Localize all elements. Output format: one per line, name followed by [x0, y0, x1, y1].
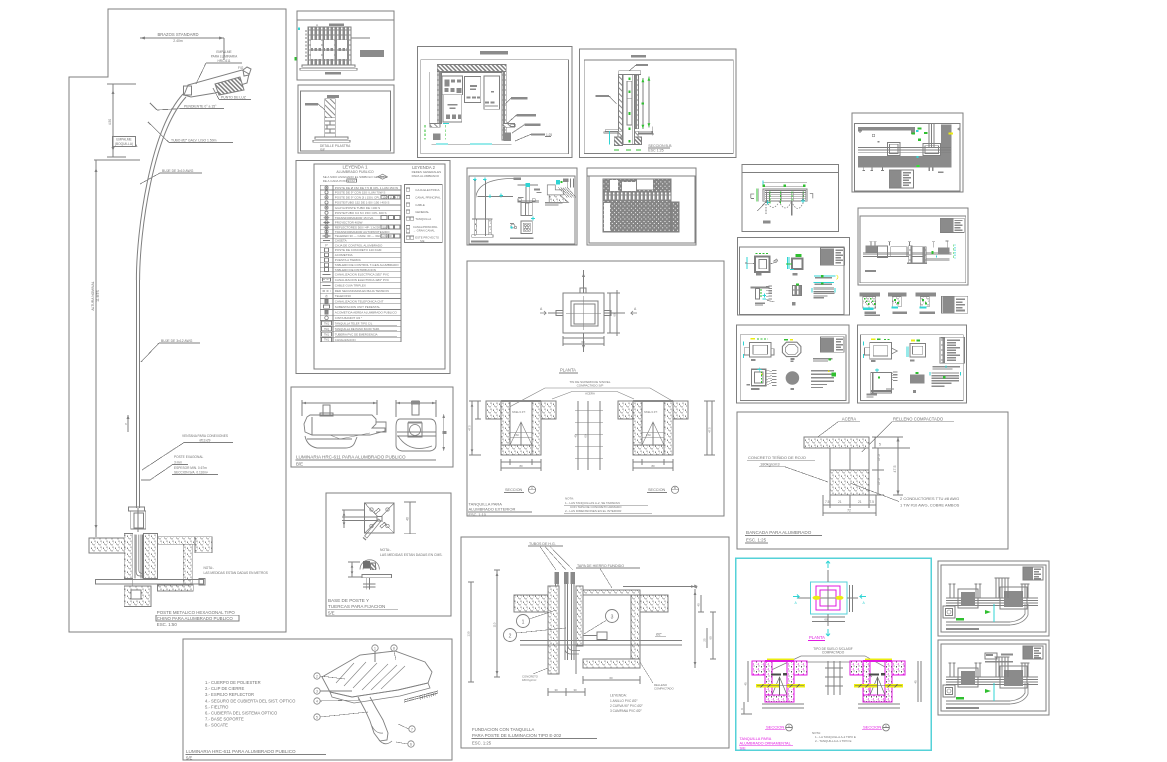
P19 title: [296, 455, 437, 467]
svg-text:45: 45: [914, 680, 918, 684]
svg-text:→ GRAN CANAL: → GRAN CANAL: [413, 229, 435, 233]
svg-text:LUMINARIA HRC-611 PARA ALUM: LUMINARIA HRC-611 PARA ALUMBRADO PUBLICO: [296, 455, 406, 460]
P14 detail sq1: [863, 338, 897, 362]
svg-text:LEYENDA:: LEYENDA:: [610, 694, 627, 698]
panel P15 border bancada: [737, 412, 1008, 549]
panel P13 border: [737, 325, 850, 403]
svg-text:GENERAL: GENERAL: [415, 210, 429, 214]
svg-text:COMPACTADO: COMPACTADO: [654, 687, 674, 691]
P1 luminaire head: [184, 67, 252, 97]
P16 yellow pads: [813, 596, 844, 600]
svg-text:2.40m: 2.40m: [173, 39, 183, 43]
svg-text:CABLE: CABLE: [415, 203, 425, 207]
P12 cluster C tee section: [915, 293, 936, 314]
svg-text:72: 72: [847, 509, 851, 513]
svg-text:2.- CLIP DE CIERRE: 2.- CLIP DE CIERRE: [205, 686, 244, 691]
P4 leader label 2: [506, 114, 536, 124]
svg-text:8.- SOCATE: 8.- SOCATE: [205, 723, 228, 728]
svg-text:RED SECUNDARIA EN BAJA TENSION: RED SECUNDARIA EN BAJA TENSION: [335, 289, 389, 293]
svg-text:ACOMETIDA AEREA ALUMBRADO PUBL: ACOMETIDA AEREA ALUMBRADO PUBLICO: [335, 311, 398, 315]
P22 roof leaders: [500, 380, 688, 412]
P11 right green cyan dashes: [954, 244, 955, 259]
P22 bottom dims under sections: [501, 459, 673, 471]
P23 right dims: [694, 589, 716, 668]
P1 conduit pipes in foundation: [136, 535, 144, 579]
svg-text:47.5: 47.5: [468, 425, 472, 431]
P4 leader label 1: [506, 97, 528, 104]
P4 leader label 3: [512, 124, 540, 134]
P16 cyan section arrows: [793, 561, 866, 636]
svg-text:60: 60: [581, 340, 585, 344]
svg-text:ESTE PROYECTO: ESTE PROYECTO: [415, 236, 440, 240]
svg-text:2.- TANQUILLA A-1 TIPO E: 2.- TANQUILLA A-1 TIPO E: [815, 739, 852, 743]
P16 title magenta: [739, 737, 793, 750]
P23 left wing block: [514, 595, 548, 612]
P20 bolt detail: [348, 560, 392, 590]
P3 caption: [320, 144, 351, 152]
svg-text:CANAL PRINCIPAL: CANAL PRINCIPAL: [415, 196, 441, 200]
panel P2 border: [297, 11, 394, 80]
svg-text:CASETA: CASETA: [335, 239, 347, 243]
svg-text:40: 40: [406, 517, 410, 521]
svg-text:COMPACTADO S/P: COMPACTADO S/P: [577, 383, 604, 387]
svg-text:2 CURVA 90° PVC Ø2″: 2 CURVA 90° PVC Ø2″: [610, 704, 644, 708]
P4 right column: [502, 71, 507, 140]
svg-text:CONCRETO TEÑIDO DE ROJO: CONCRETO TEÑIDO DE ROJO: [748, 455, 806, 460]
svg-text:5/E: 5/E: [186, 756, 192, 761]
P15 dim 47.5 overall: [893, 437, 903, 495]
P15 trench walls: [830, 448, 869, 470]
svg-text:NOTA:-: NOTA:-: [380, 548, 391, 552]
P1 chamber top slab and right wing: [158, 537, 213, 586]
svg-text:S/E: S/E: [740, 746, 747, 750]
svg-text:21: 21: [858, 500, 862, 504]
P1 label punto de luz: [213, 88, 251, 100]
P13 title block: [820, 337, 844, 353]
svg-text:7.- BASE SOPORTE: 7.- BASE SOPORTE: [205, 717, 244, 722]
P1 dimension 4.50 brazo height: [107, 84, 136, 157]
P23 center shaft walls: [548, 586, 583, 674]
P1 label ventana para conexiones: [142, 434, 233, 470]
P4 left outer line: [429, 72, 502, 123]
svg-text:Ø2″: Ø2″: [656, 633, 663, 637]
P9 scallop arcs below: [757, 201, 804, 215]
P0 right tall block: [941, 124, 952, 167]
P6 note lines and diamond: [323, 174, 389, 183]
svg-text:GUAYA/POSTE TUBO DE l 400 S: GUAYA/POSTE TUBO DE l 400 S: [335, 206, 380, 210]
P3 base rails: [313, 137, 350, 142]
P14 detail4 filled rect: [910, 372, 924, 393]
svg-text:SECCION: SECCION: [648, 488, 666, 492]
P5 left label: [595, 95, 616, 104]
P13 detail sq1 with wings: [743, 338, 774, 361]
P1 label empalme boquilla box: [113, 137, 138, 148]
svg-text:TUBO Ø2″ GALV. LISO 1.50m: TUBO Ø2″ GALV. LISO 1.50m: [171, 139, 217, 143]
P7 cyan markers pole: [473, 178, 503, 199]
P7 mini pole with arm: [474, 178, 521, 237]
svg-text:PUESTA A TIERRA: PUESTA A TIERRA: [335, 258, 361, 262]
svg-text:A: A: [885, 724, 887, 728]
P22 right dims: [704, 401, 715, 455]
svg-text:TELEFONO: TELEFONO: [335, 294, 352, 298]
svg-text:POSTE/TUBO 9.0 M l 150 l CPL 4: POSTE/TUBO 9.0 M l 150 l CPL 400 S: [335, 211, 387, 215]
P5 seccion caption: [648, 144, 672, 153]
P7 right stepped sidewalk detail: [547, 179, 576, 203]
svg-text:BUJE DE 3x10 AWG: BUJE DE 3x10 AWG: [162, 169, 194, 173]
panel P3 border: [298, 85, 394, 153]
P0 bottom gray band: [858, 156, 952, 167]
P22 notes: [564, 497, 652, 514]
P0 horizontal rails: [858, 147, 951, 152]
P16 seccion left magenta: [752, 659, 807, 702]
svg-text:BRAZOS STANDARD: BRAZOS STANDARD: [157, 32, 198, 37]
svg-text:CASA: CASA: [348, 179, 355, 183]
P14 detail rect2: [907, 340, 926, 362]
svg-text:NOTA:: NOTA:: [565, 497, 574, 501]
svg-text:2: 2: [509, 634, 512, 640]
P0 vertical risers pair: [929, 124, 934, 148]
svg-text:ESC. 1:25: ESC. 1:25: [746, 538, 767, 543]
svg-text:45: 45: [744, 682, 748, 686]
P5 green ground dashes: [614, 149, 641, 151]
svg-text:RELLENO COMPACTADO: RELLENO COMPACTADO: [893, 417, 944, 422]
P9 duct bank rect: [763, 189, 807, 201]
svg-text:SECCION B-B: SECCION B-B: [648, 144, 672, 148]
P5 top cap: [619, 71, 641, 75]
P4 left foundation: [425, 124, 449, 141]
svg-text:PARA ALUMBRADO: PARA ALUMBRADO: [412, 174, 440, 178]
svg-text:7.5: 7.5: [870, 500, 875, 504]
svg-text:VENTANA PARA CONEXIONES: VENTANA PARA CONEXIONES: [182, 434, 228, 438]
svg-text:F/G: F/G: [238, 66, 244, 70]
P0 small left marks: [858, 129, 880, 143]
svg-text:POSTE DE 9″ CON 150 l LUM 70W: POSTE DE 9″ CON 150 l LUM 70W S: [335, 191, 386, 195]
P5 wall hatched left: [619, 74, 623, 131]
svg-text:TRANSFORMADOR 15 KVA: TRANSFORMADOR 15 KVA: [335, 216, 373, 220]
P23 title: [472, 727, 598, 746]
svg-text:CHINO PARA ALUMBRADO PUBLIC: CHINO PARA ALUMBRADO PUBLICO: [157, 616, 234, 621]
svg-text:POSTE DE CONCRETO 140 KGM: POSTE DE CONCRETO 140 KGM: [335, 248, 382, 252]
svg-text:ALTURA NOMINAL: ALTURA NOMINAL: [91, 281, 95, 310]
panel P7 border: [467, 168, 577, 245]
P23 chamber: [583, 590, 668, 668]
P23 vertical conduit pipes: [555, 572, 581, 660]
svg-text:TNQ: TNQ: [324, 339, 329, 342]
P23 callout 3: [584, 610, 619, 635]
svg-text:LAS MEDIDAS ESTAN DADAS EN CMS: LAS MEDIDAS ESTAN DADAS EN CMS.: [380, 553, 443, 557]
P4 leader label 4: [515, 133, 552, 141]
P23 callout 2: [504, 628, 567, 642]
svg-text:ALUMBRADO PUBLICO: ALUMBRADO PUBLICO: [336, 170, 374, 174]
P0 color accents: [912, 127, 961, 167]
P7 mini pole foundation: [471, 219, 493, 243]
P9 green posts: [757, 189, 803, 206]
svg-text:LAS MEDIDAS ESTAN DADAS EN MET: LAS MEDIDAS ESTAN DADAS EN METROS: [204, 571, 268, 575]
P20 plan dim right: [404, 502, 416, 534]
svg-text:B: B: [674, 486, 676, 490]
panel P18 duct run lower: [938, 640, 1049, 715]
panel P5 border: [580, 49, 736, 158]
P3 label and leader: [305, 103, 325, 110]
svg-text:LUMINARIA HRC-611 PARA ALUM: LUMINARIA HRC-611 PARA ALUMBRADO PUBLICO: [186, 749, 296, 754]
svg-text:2.- LAS DIMENSIONES EN EL INTE: 2.- LAS DIMENSIONES EN EL INTERIOR: [565, 509, 622, 513]
svg-text:3.- ESPEJO REFLECTOR: 3.- ESPEJO REFLECTOR: [205, 692, 254, 697]
svg-text:60: 60: [709, 636, 713, 640]
P9 side brackets: [751, 194, 813, 199]
svg-text:ESC 1:25: ESC 1:25: [648, 149, 663, 153]
svg-text:5/E: 5/E: [328, 611, 335, 616]
svg-text:1 TW #10 AWG, COBRE AMBOS: 1 TW #10 AWG, COBRE AMBOS: [900, 503, 960, 508]
P4 left column: [437, 71, 441, 123]
svg-text:3 CAMPANA PVC Ø2″: 3 CAMPANA PVC Ø2″: [610, 709, 643, 713]
P7 bottom caption bar: [510, 237, 534, 239]
svg-text:POSTE EXAGONAL: POSTE EXAGONAL: [174, 455, 203, 459]
P23 concreto label: [522, 668, 548, 682]
P1 label buje inferior: [141, 339, 200, 362]
P6 legend table symbols and descriptions: [322, 186, 401, 342]
P20 plan leader lines left: [342, 510, 377, 528]
P16 leader roof note: [765, 647, 896, 677]
P1 foundation bottom block: [124, 585, 193, 606]
P23 callout 1: [517, 610, 557, 628]
svg-text:TAPA DE HIERRO FUNDIDO: TAPA DE HIERRO FUNDIDO: [577, 564, 624, 568]
svg-text:BASE DE POSTE Y: BASE DE POSTE Y: [328, 598, 369, 603]
svg-text:180 Kg/cm²: 180 Kg/cm²: [522, 678, 536, 682]
svg-text:60: 60: [824, 618, 828, 622]
svg-text:2: 2: [316, 674, 318, 678]
P6 leyenda 2 box: [405, 185, 443, 243]
svg-text:ACERA: ACERA: [842, 417, 857, 422]
P22 middle dims: [574, 401, 604, 470]
P22 seccion labels: [504, 486, 679, 493]
P22 section B-B right: [618, 400, 688, 455]
svg-text:PUNTO DE LUZ: PUNTO DE LUZ: [221, 96, 246, 100]
P0 mid square 2: [923, 144, 941, 156]
svg-text:80: 80: [651, 464, 655, 468]
P5 right column hatched: [635, 75, 639, 129]
svg-text:A: A: [316, 23, 318, 27]
P1 nota medidas metros: [204, 566, 268, 575]
P7 center foundation box: [521, 202, 532, 215]
P10 detail sq1: [745, 254, 778, 276]
P19 left luminaire profile: [302, 400, 386, 448]
P16 planta label magenta: [808, 635, 825, 640]
P1 dimension BRAZOS STANDARD 2.40m: [140, 32, 224, 60]
panel P0 border top-right: [852, 113, 963, 192]
P23 left dims: [467, 570, 501, 682]
svg-text:(BOQUILLA): (BOQUILLA): [115, 142, 133, 146]
P23 bottom dims: [548, 676, 640, 696]
P5 floor left: [604, 130, 623, 146]
svg-text:180kg/cm3: 180kg/cm3: [760, 462, 780, 467]
svg-text:ESPESOR MIN. 0.67m: ESPESOR MIN. 0.67m: [174, 466, 207, 470]
svg-text:ALUMBRADO ORNAMENTAL: ALUMBRADO ORNAMENTAL: [740, 742, 791, 746]
P8 schedule right extension: [671, 202, 679, 232]
P22 left dims: [468, 401, 482, 455]
P4 roof beam hatched: [437, 65, 506, 72]
svg-text:CAJA DE CONTROL ALUMBRADO: CAJA DE CONTROL ALUMBRADO: [335, 243, 383, 247]
P1 label tubo galv liso: [148, 122, 233, 143]
P22 section A-A left: [486, 400, 556, 455]
svg-text:60: 60: [613, 313, 617, 317]
P12 cluster B tee section: [888, 293, 907, 314]
svg-text:TRANSFORMADOR AUTOPROTEGIDO: TRANSFORMADOR AUTOPROTEGIDO: [335, 230, 390, 234]
svg-text:CINTA BANDIT 3/4 ″: CINTA BANDIT 3/4 ″: [335, 316, 362, 320]
P15 label acera: [815, 417, 860, 440]
svg-text:SECCION: SECCION: [863, 725, 881, 730]
svg-text:PLANTA: PLANTA: [560, 368, 576, 373]
P21 exploded luminaire sketch: [322, 651, 438, 744]
svg-text:6.- CUBIERTA DEL SISTEMA O: 6.- CUBIERTA DEL SISTEMA OPTICO: [205, 711, 278, 716]
P10 mid-right hardware row: [814, 275, 838, 280]
svg-text:ESC. 1:50: ESC. 1:50: [157, 622, 178, 627]
P4 box2: [465, 76, 481, 102]
svg-text:17.5: 17.5: [877, 454, 881, 461]
P1 label pendiente: [150, 103, 224, 110]
P1 curved arm: [136, 94, 186, 280]
svg-text:6: 6: [410, 742, 412, 746]
svg-text:DE A CADA POSTE: DE A CADA POSTE: [323, 179, 350, 183]
P6 legend table grid: [320, 185, 401, 342]
svg-text:TUERCAS PARA FIJACION: TUERCAS PARA FIJACION: [328, 604, 385, 609]
svg-text:5.- FIELTRO: 5.- FIELTRO: [205, 704, 229, 709]
svg-text:7: 7: [411, 727, 413, 731]
P0 title block: [889, 170, 943, 188]
P21 title: [186, 749, 327, 761]
P16 plan view squares: [798, 570, 858, 626]
svg-text:3: 3: [611, 615, 614, 621]
P16 plan dims: [812, 585, 853, 622]
svg-text:NOTA:-: NOTA:-: [204, 566, 215, 570]
svg-text:CANALIZACION ELECTRICA 2Ø2″ P: CANALIZACION ELECTRICA 2Ø2″ PVC: [335, 273, 390, 277]
P11 right blocks: [926, 241, 950, 260]
P8 schedule top row blocks: [603, 179, 671, 192]
P22 planta label: [559, 368, 578, 374]
svg-text:30: 30: [554, 688, 558, 692]
svg-text:CANALIZACION TELEFONICA CNT: CANALIZACION TELEFONICA CNT: [335, 299, 384, 303]
svg-text:BANCADA PARA ALUMBRADO: BANCADA PARA ALUMBRADO: [746, 530, 812, 535]
P8 schedule dense band: [603, 192, 671, 201]
P1 title poste metalico: [156, 610, 239, 627]
svg-text:3 mm: 3 mm: [174, 461, 182, 465]
P11 caption bar: [865, 270, 876, 272]
svg-text:TABLERO DE DISTRIBUCION: TABLERO DE DISTRIBUCION: [335, 268, 376, 272]
P1 pole shaft: [136, 280, 139, 532]
P1 label buje superior: [140, 169, 202, 184]
svg-text:PLANTA: PLANTA: [809, 635, 825, 640]
panel P20 border: [326, 493, 451, 616]
svg-text:1 ANILLO PVC Ø2″: 1 ANILLO PVC Ø2″: [610, 699, 638, 703]
P16 seccion right magenta: [850, 659, 905, 702]
P22 plan dims: [563, 290, 620, 346]
svg-text:5: 5: [316, 715, 318, 719]
svg-text:3: 3: [316, 689, 318, 693]
panel P6 border leyenda: [296, 161, 450, 374]
P15 label concreto tenido: [747, 455, 828, 482]
svg-text:EMPALME: EMPALME: [116, 138, 131, 142]
P13 detail3 square thick: [746, 367, 776, 390]
svg-text:21: 21: [838, 500, 842, 504]
svg-text:SECCION: SECCION: [766, 725, 784, 730]
panel P14 border: [857, 325, 966, 403]
svg-text:TANQUILLA: TANQUILLA: [415, 217, 431, 221]
panel P11 border: [858, 208, 968, 285]
svg-text:8: 8: [393, 646, 395, 650]
P16 notes center: [812, 731, 856, 743]
P9 caption block: [763, 221, 770, 224]
P1 dimension ALTURA NOMINAL 11 MTS: [91, 160, 140, 537]
P1 small arrow mid pole: [125, 415, 129, 432]
svg-text:17.5: 17.5: [877, 478, 881, 485]
svg-text:7.5: 7.5: [825, 500, 830, 504]
P23 leyenda: [610, 694, 644, 714]
svg-text:60: 60: [609, 676, 613, 680]
panel P10 border: [738, 237, 850, 314]
panel P8 border: [587, 168, 696, 245]
P1 label poste exagonal: [141, 455, 218, 480]
svg-text:1.- CUERPO DE POLIESTER: 1.- CUERPO DE POLIESTER: [205, 680, 261, 685]
svg-text:2 CONDUCTORES TTU #8 AWG: 2 CONDUCTORES TTU #8 AWG: [900, 496, 959, 501]
P9 cyan markers: [766, 199, 806, 205]
P15 label conductores: [850, 483, 960, 508]
svg-text:4.50: 4.50: [108, 119, 112, 125]
svg-text:1: 1: [522, 620, 525, 626]
P0 mid square 1: [887, 142, 900, 155]
P6 leyenda 2 title: [412, 165, 442, 178]
panel P16 cyan border: [736, 558, 931, 750]
P20 nota text: [380, 548, 443, 557]
svg-text:11 MTS: 11 MTS: [96, 289, 100, 301]
svg-text:PROYECTOR 400W: PROYECTOR 400W: [335, 221, 363, 225]
panel P23 border: [461, 537, 729, 748]
svg-text:S/E: S/E: [320, 148, 325, 152]
P7 right detail captions: [545, 202, 563, 206]
P12 cluster D title block: [942, 296, 968, 313]
P15 title bancada: [745, 530, 822, 543]
svg-text:5: 5: [879, 443, 881, 447]
P14 long bars row: [933, 365, 961, 369]
svg-text:PARA LUMINARIA: PARA LUMINARIA: [211, 55, 238, 59]
P4 ground baseline: [432, 143, 512, 145]
svg-text:PARA POSTE DE ILUMINACION: PARA POSTE DE ILUMINACION TIPO E-202: [472, 733, 562, 738]
svg-text:FUNDACION CON TANQUILLA: FUNDACION CON TANQUILLA: [472, 727, 534, 732]
svg-text:SECCION S/A. 0.116m²: SECCION S/A. 0.116m²: [174, 471, 208, 475]
P22 plan squares: [548, 270, 625, 352]
P12 cluster A tee section: [860, 293, 880, 316]
svg-text:SUBESTACION UNIT PEDESTAL: SUBESTACION UNIT PEDESTAL: [335, 305, 381, 309]
P9 dim lines top: [762, 181, 807, 188]
svg-text:LEYENDA 1: LEYENDA 1: [342, 165, 367, 170]
svg-text:A: A: [531, 486, 533, 490]
P22 plan A-A markers: [540, 273, 637, 349]
P14 detail3 big square: [867, 368, 898, 397]
P15 dims bottom 7.5 21 21 7.5 72: [823, 495, 876, 516]
P0 top duct bar: [858, 127, 915, 134]
svg-text:POSTE METALICO HEXAGONAL TI: POSTE METALICO HEXAGONAL TIPO: [157, 610, 236, 615]
P13 detail octagon ring: [782, 339, 801, 362]
P23 relleno label right: [640, 662, 674, 691]
P5 acometida label: [629, 64, 648, 71]
svg-text:POSTE DE Ø 152 DE 7.5 M CPL: POSTE DE Ø 152 DE 7.5 M CPL 1 LUM 150 W: [335, 186, 398, 190]
P16 seccion labels magenta: [765, 724, 889, 731]
svg-text:4: 4: [316, 699, 318, 703]
P2 grating block: [308, 27, 351, 65]
P20 title: [328, 598, 399, 616]
panel P19 border: [291, 387, 453, 467]
svg-text:POSTE/TUBO 152 DE 1-50 l 150 l: POSTE/TUBO 152 DE 1-50 l 150 l 400 S: [335, 201, 390, 205]
svg-text:A: A: [788, 724, 790, 728]
P1 ground rail bar: [95, 579, 205, 585]
